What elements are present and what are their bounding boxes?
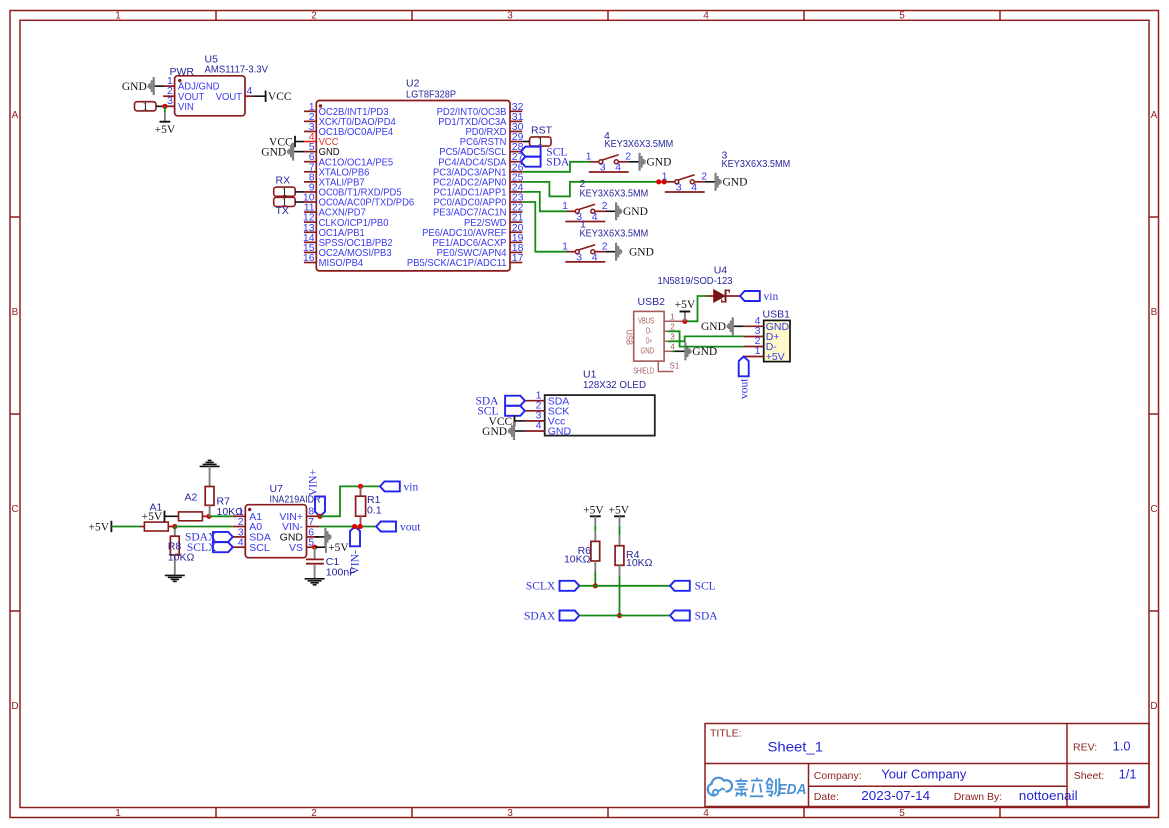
svg-text:VIN+: VIN+: [308, 469, 320, 496]
svg-text:0.1: 0.1: [367, 505, 382, 517]
svg-text:16: 16: [303, 252, 315, 264]
resistor R8 10KOhm: [170, 527, 179, 576]
wire SCLX to SCL: [579, 585, 670, 587]
svg-text:D-: D-: [646, 326, 652, 335]
wire R6 to SCLX: [594, 572, 596, 586]
pin 32 PD2/INT0/OC3B of U2: [437, 101, 524, 118]
svg-text:2: 2: [602, 241, 608, 253]
pin 12 CLKO/ICP1/PB0 of U2: [303, 212, 389, 229]
ground flag at U7 pin 6: [315, 528, 332, 546]
pin 7 VIN- of U7: [282, 516, 319, 533]
svg-text:GND: GND: [482, 426, 507, 438]
pin 29 PC6/RSTN of U2: [460, 131, 524, 148]
pin 7 XTALO/PB6 of U2: [304, 161, 370, 178]
svg-text:VBUS: VBUS: [638, 316, 654, 325]
pin 1 VBUS of USB2: [638, 312, 683, 325]
pin 5 VS of U7: [289, 537, 319, 554]
svg-text:GND: GND: [692, 346, 717, 358]
wire +5V to A1: [111, 526, 140, 528]
pin 11 ACXN/PD7 of U2: [304, 202, 366, 219]
pin 17 PB5/SCK/AC1P/ADC11 of U2: [407, 252, 524, 269]
svg-text:A: A: [12, 110, 19, 121]
svg-text:SCLX: SCLX: [187, 542, 217, 554]
svg-text:GND: GND: [641, 346, 655, 355]
junction at VIN- tip: [352, 524, 357, 529]
resistor A2: [165, 512, 210, 521]
title block Company: [814, 767, 967, 781]
svg-text:+5V: +5V: [155, 124, 176, 136]
net SDA port at U2 pin 27: [521, 157, 570, 169]
svg-text:17: 17: [512, 252, 524, 264]
svg-text:4: 4: [670, 342, 675, 351]
net SCL port at U1 pin 2: [477, 406, 524, 418]
svg-text:100nF: 100nF: [326, 567, 356, 579]
pin 4 GND of USB2: [641, 342, 676, 355]
pin 21 PE2/SWD of U2: [464, 212, 524, 229]
net VCC flag at U2 pin 4: [295, 141, 304, 143]
svg-text:+5V: +5V: [142, 511, 163, 523]
power +5V at A2 row: [142, 511, 165, 524]
wire VBUS to diode anode: [683, 296, 707, 321]
logo JLC EDA: [708, 778, 807, 798]
pin S1 SHIELD of USB2: [633, 361, 680, 375]
svg-text:Sheet_1: Sheet_1: [768, 739, 824, 755]
pin 8 VIN+ of U7: [279, 506, 319, 523]
junction at A2 output: [206, 514, 211, 519]
regulator U5 AMS1117-3.3V: [165, 76, 253, 116]
svg-text:TITLE:: TITLE:: [710, 728, 742, 740]
wire A1 to U7 A0: [175, 526, 233, 528]
svg-text:KEY3X6X3.5MM: KEY3X6X3.5MM: [580, 227, 649, 239]
svg-text:TX: TX: [276, 205, 289, 217]
svg-text:SDA: SDA: [695, 610, 719, 622]
svg-text:3: 3: [670, 332, 675, 341]
svg-text:1N5819/SOD-123: 1N5819/SOD-123: [658, 275, 733, 287]
junction at KEY3 pin 1: [662, 179, 667, 184]
junction R4 on SDAX: [617, 613, 622, 618]
pin 3 VIN of U5: [167, 95, 194, 113]
svg-text:C: C: [11, 504, 18, 515]
pin 1 A1 of U7: [233, 506, 263, 523]
svg-text:+5V: +5V: [583, 505, 604, 517]
svg-text:GND: GND: [647, 157, 672, 169]
svg-text:AMS1117-3.3V: AMS1117-3.3V: [205, 64, 269, 76]
svg-text:VIN: VIN: [178, 101, 194, 113]
svg-text:VS: VS: [289, 542, 303, 554]
wire +5V to R6: [594, 526, 596, 531]
svg-text:USB2: USB2: [638, 296, 666, 308]
ground flag at USB2 GND: [675, 342, 718, 360]
svg-text:GND: GND: [623, 206, 648, 218]
wire U7 VIN- to vout: [319, 526, 376, 528]
wire U2 pin 29 to RST: [522, 141, 529, 143]
ground flag at U1 pin 4: [482, 422, 525, 440]
svg-text:1: 1: [586, 151, 592, 163]
junction at U7 VIN+: [317, 514, 322, 519]
svg-text:A2: A2: [185, 492, 198, 504]
svg-text:SCLX: SCLX: [526, 581, 556, 593]
pin 26 PC3/ADC3/APN1 of U2: [433, 161, 524, 178]
svg-text:4: 4: [615, 162, 621, 174]
junction at U7 VS: [312, 545, 317, 550]
svg-text:Your Company: Your Company: [881, 767, 967, 781]
svg-text:1: 1: [142, 99, 148, 113]
svg-text:RST: RST: [531, 125, 553, 137]
connector TX: [274, 195, 296, 209]
pin 1 SDA of U1: [525, 389, 569, 407]
pin 18 PE0/SWC/APN4 of U2: [437, 242, 524, 259]
pin 2 A0 of U7: [233, 516, 263, 533]
power +5V above R4: [609, 505, 630, 526]
earth ground below R8: [165, 575, 185, 581]
resistor R4 10KOhm: [615, 535, 624, 576]
wire U7 VIN+ to vin: [319, 486, 380, 516]
svg-text:GND: GND: [548, 426, 572, 438]
wire USB2 D- to USB1 D-: [668, 331, 744, 346]
wire U2 pin 26 to KEY4: [522, 162, 590, 172]
ground flag at U5 pin 1: [122, 77, 165, 95]
diode U4 1N5819/SOD-123: [707, 290, 741, 303]
wire USB2 GND stub: [672, 350, 675, 352]
svg-text:1/1: 1/1: [1119, 767, 1137, 781]
power +5V far left: [89, 521, 112, 534]
svg-text:2: 2: [602, 200, 608, 212]
svg-text:SCL: SCL: [695, 581, 716, 593]
power +5V below U5: [155, 112, 176, 136]
pin 3 D+ of USB1: [744, 325, 780, 343]
svg-text:A: A: [1151, 110, 1158, 121]
pin 24 PC1/ADC1/APP1 of U2: [434, 181, 524, 198]
net vout port right: [376, 521, 421, 533]
pin 2 D- of USB1: [744, 335, 778, 353]
net VCC flag at U1 pin 3: [515, 420, 525, 422]
svg-text:GND: GND: [261, 147, 286, 159]
svg-text:4: 4: [536, 420, 542, 432]
net SCLX port left: [526, 581, 579, 593]
MCU U2 LGT8F328P: [316, 101, 510, 271]
junction at VBUS +5V: [682, 319, 687, 324]
svg-text:128X32 OLED: 128X32 OLED: [583, 379, 646, 391]
svg-text:GND: GND: [723, 177, 748, 189]
wire A2 to U7 A1: [209, 515, 233, 517]
svg-text:USB: USB: [624, 330, 634, 346]
svg-text:KEY3X6X3.5MM: KEY3X6X3.5MM: [605, 138, 674, 150]
power +5V at U7 VS: [315, 542, 350, 554]
wire TX to U2 pin 10: [295, 201, 304, 203]
pin 4 VCC of U2: [304, 131, 339, 148]
svg-text:3: 3: [600, 162, 606, 174]
earth ground above R7: [200, 460, 220, 466]
wire U2 pin 23 to KEY1: [522, 202, 566, 252]
title block Sheet: [1074, 767, 1137, 781]
svg-text:+5V: +5V: [675, 299, 696, 311]
svg-text:5: 5: [899, 11, 905, 22]
pin 8 XTALI/PB7 of U2: [304, 171, 365, 188]
resistor R7 10KOhm: [205, 466, 214, 516]
svg-text:SDAX: SDAX: [524, 610, 556, 622]
wire R4 to SDAX: [619, 576, 621, 616]
pin 1 +5V of USB1: [744, 345, 785, 363]
svg-text:C: C: [1150, 504, 1157, 515]
svg-text:Sheet:: Sheet:: [1074, 770, 1104, 782]
svg-text:USB1: USB1: [763, 308, 791, 320]
pin 31 PD1/TXD/OC3A of U2: [438, 111, 523, 128]
pin 3 OC1B/OC0A/PE4 of U2: [304, 121, 393, 138]
net SDA port right: [670, 610, 718, 622]
pin 15 OC2A/MOSI/PB3 of U2: [303, 242, 392, 259]
wire junction to +5V flag: [164, 106, 166, 112]
svg-text:KEY3X6X3.5MM: KEY3X6X3.5MM: [722, 158, 791, 170]
connector USB2: [624, 311, 673, 371]
pin 4 GND of U1: [525, 420, 572, 438]
title block REV: [1073, 740, 1131, 754]
wire SDAX to SDA: [579, 615, 670, 617]
svg-text:3: 3: [676, 182, 682, 194]
svg-text:1: 1: [562, 241, 568, 253]
junction R6 on SCLX: [593, 583, 598, 588]
svg-text:vout: vout: [739, 378, 751, 399]
svg-text:GND: GND: [629, 247, 654, 259]
power +5V at VBUS: [675, 299, 696, 321]
svg-text:Date:: Date:: [814, 791, 839, 803]
svg-text:vin: vin: [764, 291, 779, 303]
svg-text:5: 5: [899, 808, 905, 819]
junction at R1 top: [358, 484, 363, 489]
net SCLX port at U7 pin 4: [187, 542, 233, 554]
net vin port right: [380, 481, 418, 493]
net SCL port right: [670, 581, 716, 593]
pin 1 ADJ/GND of U5: [167, 75, 220, 93]
pin 3 D+ of USB2: [646, 332, 675, 345]
power +5V above R6: [583, 505, 604, 526]
display U1 128X32 OLED: [545, 395, 655, 436]
junction at R1 bottom: [358, 524, 363, 529]
svg-text:LGT8F328P: LGT8F328P: [406, 88, 456, 100]
svg-text:nottoenail: nottoenail: [1019, 789, 1078, 803]
wire U2 pin 24 to KEY2: [522, 192, 566, 211]
svg-text:vin: vin: [404, 481, 419, 493]
svg-text:4: 4: [691, 182, 697, 194]
svg-text:1: 1: [662, 171, 668, 183]
pin 25 PC2/ADC2/APN0 of U2: [433, 171, 524, 188]
switch KEY3: [662, 171, 708, 194]
pin 16 MISO/PB4 of U2: [303, 252, 363, 269]
svg-text:+5V: +5V: [89, 521, 110, 533]
svg-text:vout: vout: [400, 521, 421, 533]
svg-text:1: 1: [115, 808, 121, 819]
title block Date and Drawn By: [814, 789, 1078, 803]
svg-text:PWR: PWR: [170, 66, 195, 78]
resistor R6 10KOhm: [591, 531, 600, 572]
svg-text:D: D: [11, 701, 18, 712]
pin 10 OC0A/AC0P/TXD/PD6 of U2: [303, 192, 414, 209]
net SCL port at U2 pin 28: [521, 146, 568, 158]
svg-text:4: 4: [247, 85, 253, 97]
net VCC flag at U5 pin 4: [253, 95, 265, 97]
svg-text:SDA: SDA: [546, 157, 570, 169]
wire U2 pin 25 to KEY3: [522, 182, 666, 197]
switch KEY2: [562, 200, 608, 223]
svg-text:MISO/PB4: MISO/PB4: [319, 257, 364, 269]
svg-text:1: 1: [562, 200, 568, 212]
svg-text:2: 2: [701, 171, 707, 183]
ground flag at U2 pin 5: [261, 143, 304, 161]
pin 20 PE6/ADC10/AVREF of U2: [422, 222, 524, 239]
pin 1 OC2B/INT1/PD3 of U2: [304, 101, 389, 118]
net VIN+ port at U7 pin 8: [308, 469, 326, 516]
svg-text:Drawn By:: Drawn By:: [954, 791, 1002, 803]
net SDA port at U1 pin 1: [475, 396, 524, 408]
pin 2 SCK of U1: [525, 399, 569, 417]
svg-text:D: D: [1150, 701, 1157, 712]
svg-text:S1: S1: [670, 361, 680, 370]
pin 3 SDA of U7: [233, 526, 271, 543]
pin 4 SCL of U7: [233, 537, 270, 554]
svg-text:Company:: Company:: [814, 770, 862, 782]
pin 4 VOUT of U5: [216, 85, 253, 103]
svg-text:2: 2: [625, 151, 631, 163]
pin 3 Vcc of U1: [525, 410, 565, 428]
svg-text:4: 4: [703, 11, 709, 22]
svg-text:GND: GND: [122, 81, 147, 93]
connector RX: [274, 184, 296, 198]
pin 27 PC4/ADC4/SDA of U2: [438, 151, 523, 168]
svg-text:10KΩ: 10KΩ: [626, 557, 653, 569]
junction at U5 VIN: [162, 104, 167, 109]
switch KEY1: [562, 241, 608, 264]
svg-text:1.0: 1.0: [1113, 740, 1131, 754]
pin 19 PE1/ADC6/ACXP of U2: [432, 232, 523, 249]
svg-text:KEY3X6X3.5MM: KEY3X6X3.5MM: [580, 188, 649, 200]
svg-text:2: 2: [670, 322, 675, 331]
resistor R1 0.1: [356, 486, 366, 526]
junction at A1 output: [172, 524, 177, 529]
svg-text:+5V: +5V: [328, 542, 349, 554]
ground flag at USB1 pin 4: [701, 317, 744, 335]
svg-text:1: 1: [755, 345, 761, 357]
svg-text:VOUT: VOUT: [216, 91, 243, 103]
pin 2 XCK/T0/DAO/PD4 of U2: [304, 111, 396, 128]
pin 14 SPSS/OC1B/PB2 of U2: [303, 232, 393, 249]
svg-text:10KΩ: 10KΩ: [564, 553, 591, 565]
connector PWR: [135, 99, 157, 113]
net vout port at USB1 pin 1: [739, 357, 751, 400]
svg-text:2: 2: [311, 11, 317, 22]
earth ground below C1: [305, 579, 325, 585]
svg-text:4: 4: [592, 252, 598, 264]
svg-text:3: 3: [507, 808, 513, 819]
svg-text:SHIELD: SHIELD: [633, 367, 654, 376]
pin 30 PD0/RXD of U2: [466, 121, 524, 138]
pin 6 GND of U7: [280, 526, 319, 543]
junction on KEY3 wire: [656, 179, 661, 184]
svg-text:REV:: REV:: [1073, 742, 1097, 754]
svg-text:EDA: EDA: [778, 782, 807, 798]
svg-text:GND: GND: [701, 321, 726, 333]
svg-text:PB5/SCK/AC1P/ADC11: PB5/SCK/AC1P/ADC11: [407, 257, 507, 269]
svg-text:3: 3: [167, 95, 173, 107]
capacitor C1 100nF: [306, 547, 324, 579]
net SDAX port left: [524, 610, 579, 622]
pin 2 D- of USB2: [646, 322, 675, 335]
svg-text:VCC: VCC: [268, 91, 292, 103]
pin 22 PE3/ADC7/AC1N of U2: [433, 202, 524, 219]
pin 13 OC1A/PB1 of U2: [303, 222, 365, 239]
svg-text:B: B: [1151, 307, 1158, 318]
pin 5 GND of U2: [304, 141, 340, 158]
pin 2 VOUT of U5: [163, 85, 205, 103]
title block TITLE: [710, 728, 823, 755]
svg-text:4: 4: [592, 211, 598, 223]
svg-text:+5V: +5V: [609, 505, 630, 517]
svg-text:SCL: SCL: [249, 542, 270, 554]
wire PWR to U5 VIN: [156, 105, 165, 107]
svg-text:2023-07-14: 2023-07-14: [861, 789, 930, 803]
svg-text:D+: D+: [646, 336, 652, 345]
svg-text:4: 4: [703, 808, 709, 819]
svg-text:B: B: [12, 307, 19, 318]
svg-text:2: 2: [311, 808, 317, 819]
svg-text:3: 3: [576, 252, 582, 264]
wire USB2 D+ to USB1 D+: [668, 336, 744, 341]
svg-text:10KΩ: 10KΩ: [217, 506, 244, 518]
pin 4 GND of USB1: [744, 315, 790, 333]
pin 23 PC0/ADC0/APP0 of U2: [434, 192, 524, 209]
switch KEY4: [586, 151, 632, 174]
svg-text:4: 4: [238, 537, 244, 549]
net SDAX port at U7 pin 3: [185, 532, 233, 544]
pin 9 OC0B/T1/RXD/PD5 of U2: [304, 181, 402, 198]
connector RST: [530, 134, 552, 148]
resistor A1: [140, 522, 175, 531]
wire RX to U2 pin 9: [295, 191, 304, 193]
svg-text:R8: R8: [168, 540, 182, 552]
pin 6 AC1O/OC1A/PE5 of U2: [304, 151, 393, 168]
svg-text:3: 3: [507, 11, 513, 22]
pin 28 PC5/ADC5/SCL of U2: [439, 141, 523, 158]
connector USB1: [764, 320, 790, 361]
svg-text:1: 1: [670, 312, 675, 321]
net vin port: [740, 291, 778, 303]
wire +5V to R4: [619, 526, 621, 535]
net VIN- port at U7 pin 7: [350, 527, 362, 575]
current sensor U7 INA219AIDR: [245, 505, 306, 558]
svg-text:1: 1: [115, 11, 121, 22]
svg-text:RX: RX: [276, 175, 291, 187]
svg-text:+5V: +5V: [766, 351, 785, 363]
